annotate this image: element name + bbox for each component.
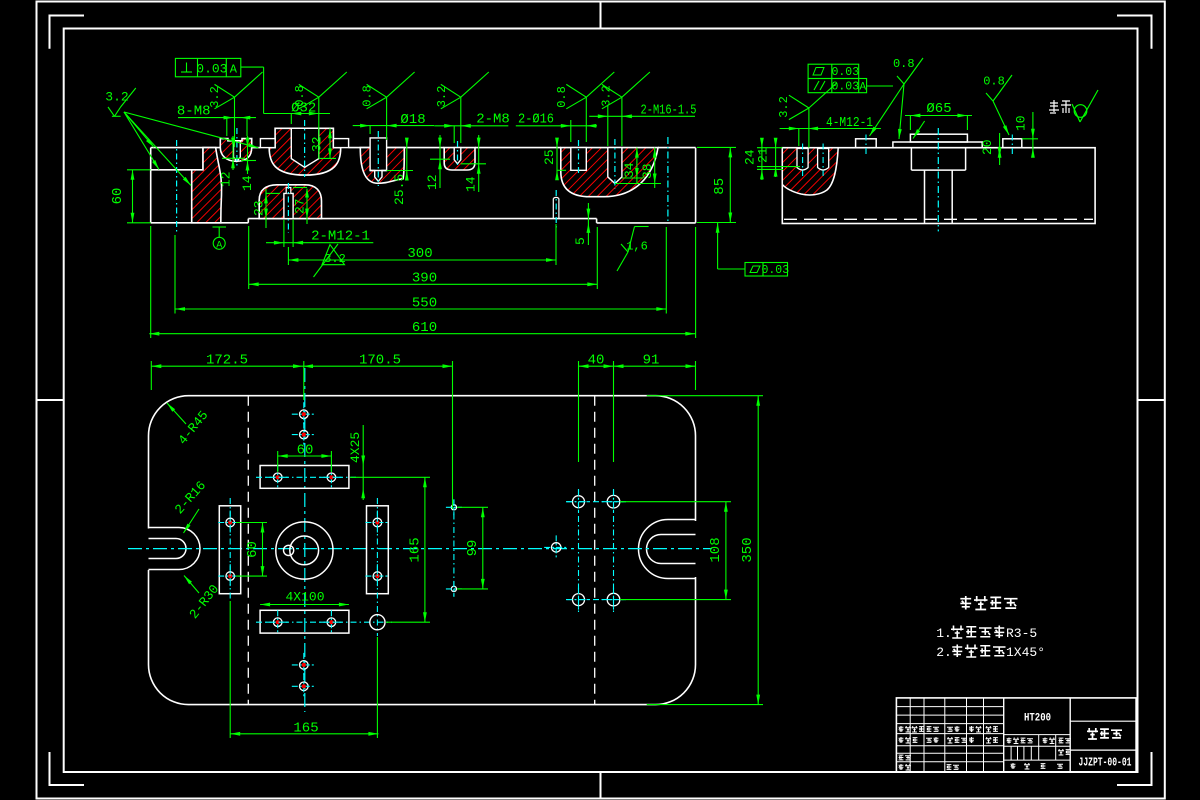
svg-text:2-M8: 2-M8 [476,112,510,128]
front view body outline [151,148,696,223]
small holes top pair [292,402,316,446]
dim 85 right [697,147,736,222]
dim 172.5 [151,353,303,391]
phi18 centerline [377,131,379,186]
side view body outline [782,148,1095,224]
side view left tab centerline [865,135,867,158]
perpendicularity frame 0.03 A [175,58,263,113]
M16 tapped hole [608,148,622,184]
surface mark 0.8 at phi32 [293,72,347,158]
tech req line 2 [936,645,1045,661]
svg-text:0.8: 0.8 [983,75,1005,89]
surface mark 3.2 at 2-M16 [600,72,650,109]
phi32 label and dim [264,101,330,125]
label 4-R45 [167,403,211,448]
dim 25.5 [387,138,413,205]
surface mark 3.2 at 2-M8 [435,72,489,109]
svg-text:14: 14 [464,176,479,192]
svg-text:3.2: 3.2 [105,90,128,105]
plan edge openings for side slots [149,521,696,577]
center tick left edge [37,399,64,401]
keyway holes right slot [365,498,389,636]
surface mark 3.2 side view [777,83,837,148]
8-M8 tapped hole [234,141,241,162]
2-M12-1 label and dim [266,220,373,247]
svg-text:12: 12 [425,174,440,190]
center tick top edge [600,2,602,29]
svg-text:390: 390 [412,271,437,287]
center bore circles [276,522,333,579]
svg-text:60: 60 [297,443,314,459]
keyway holes top slot [256,465,356,489]
plan main vertical centerline [304,368,306,712]
surface mark 3.2 at 8-M8 [208,72,263,147]
svg-text:4X25: 4X25 [348,432,363,463]
dim 14 at 8-M8 [240,136,256,191]
surface mark 0.8 at 2-phi16 [555,72,614,109]
svg-text:HT200: HT200 [1024,713,1051,725]
svg-text:3.2: 3.2 [324,252,346,266]
side view left hatch (4-M12 bosses) [782,148,838,195]
svg-text:25.5: 25.5 [392,174,407,205]
svg-text:2.: 2. [936,645,952,660]
label 2-R16 [172,478,209,533]
phi32 counterbore hole [291,128,319,167]
2-phi16 label and dim [516,97,597,142]
center tick right edge [1138,399,1165,401]
dim 60 left [110,170,151,223]
dim 390 [249,226,598,289]
surface mark 1.6 [617,227,649,272]
svg-text:108: 108 [708,537,724,562]
svg-text:165: 165 [293,720,318,736]
keyway slot left [219,506,240,594]
svg-text:40: 40 [588,353,605,369]
flatness frame 0.03 bottom [716,223,789,277]
M12 hole centerline [287,183,289,233]
svg-text:A: A [859,81,866,93]
plain circle below right keyway [370,615,385,630]
svg-text:A: A [216,241,222,252]
corner mark bottom-right [1117,752,1152,785]
dim 10 [1014,112,1039,158]
dim 300 [288,224,556,265]
datum A symbol [213,227,227,252]
phi32 right ear [333,139,348,148]
dim 40 [579,353,614,463]
phi18 hole with collar [370,138,387,181]
4-M12 centerlines [803,144,824,177]
svg-text:350: 350 [740,537,756,562]
svg-text:300: 300 [407,246,432,262]
dim 12 at 8-M8 [219,136,246,187]
keyway slot right [367,506,389,594]
dim 23 at M12 [252,189,281,228]
side view left tab [856,139,877,148]
dim 99 [457,507,488,589]
left bore centerline [176,140,178,233]
dim 91 [614,353,696,391]
surface mark 0.8 center [870,57,924,139]
dim 165 vertical [350,477,430,622]
dim 350 [647,396,763,705]
svg-text:0.03: 0.03 [196,61,227,76]
left side slot [149,528,201,570]
dim 12 at 2-M8 [425,135,450,190]
phi18 pocket hatch [360,148,404,184]
dim 5 step [573,203,590,245]
right M12 hole in base [553,197,559,218]
svg-text:Ø65: Ø65 [926,101,951,117]
title block texts [899,713,1132,771]
svg-text:12: 12 [219,171,234,187]
dim 27 at M12 [293,188,309,225]
center tick bottom edge [600,772,602,799]
technical requirements title [960,596,1017,610]
right M12 centerline [555,190,557,229]
svg-text:23: 23 [252,200,267,216]
2-phi16 pocket hatch [561,148,658,197]
svg-text:27: 27 [293,198,308,214]
four corner circles right group [566,489,626,612]
section line right dashed [594,396,596,705]
svg-text:5: 5 [573,237,588,245]
parallelism frame stack [808,64,893,93]
svg-text:0.03: 0.03 [761,264,789,277]
svg-text:610: 610 [412,320,437,336]
8-M8 boss tabs and pocket hatch [220,139,251,162]
right slot axis centerline [667,137,669,223]
svg-text:0.8: 0.8 [893,57,915,71]
svg-text:2-Ø16: 2-Ø16 [518,112,554,128]
dim 108 [620,502,731,600]
svg-text:0.03: 0.03 [831,80,859,93]
plan main horizontal centerline [128,548,712,550]
4-M12-1 label and dim [780,115,881,146]
2-M8 pocket hatch [444,148,475,170]
svg-text:38: 38 [640,163,655,179]
keyway slot top [260,466,349,489]
svg-text:10: 10 [1014,115,1029,131]
section line left dashed [247,396,249,705]
keyway holes bottom slot [256,610,392,634]
2-M12 lower boss hatch [259,185,321,219]
svg-text:0.8: 0.8 [361,85,375,107]
surface mark 0.8 at phi18 [361,72,415,109]
phi32 hole centerline [304,120,306,177]
mid hole right of centre [544,535,568,559]
dim 32 depth [310,128,337,158]
keyway holes left slot [218,498,242,601]
side view right tab [1003,139,1022,148]
dim 4X25 [348,425,365,500]
dim 610 [149,226,695,338]
svg-text:1.: 1. [936,626,952,641]
phi65 label and dim [905,101,972,139]
svg-text:550: 550 [412,295,437,311]
svg-text:2-M12-1: 2-M12-1 [311,229,370,245]
label 2-R30 [184,576,222,622]
dim 550 [175,227,666,314]
dim 38 [615,148,661,188]
dim 21 [756,138,801,177]
svg-text:3.2: 3.2 [600,85,614,107]
svg-text:25: 25 [542,149,557,165]
4-M12 hole b [818,149,829,171]
dim 60 left rotated [236,523,267,577]
svg-text:34: 34 [622,162,637,178]
front view left rib section hatch [192,148,222,223]
2-M8 label and dim [434,97,510,143]
svg-text:60: 60 [245,541,261,558]
2-M8 tapped hole [454,148,461,164]
phi18 label and dim [353,97,434,140]
M12 tapped hole left [284,188,293,219]
dim 165 bottom [230,601,378,738]
svg-text:JJZPT-00-01: JJZPT-00-01 [1079,757,1132,770]
svg-text:21: 21 [756,147,771,163]
surface mark 3.2 multi-leader [105,88,258,186]
dim 60 top [278,443,332,473]
dim 25 [542,138,566,181]
side view right tab centerline [1011,135,1013,158]
svg-text:20: 20 [980,139,995,155]
pedestal centerline [937,128,939,231]
M16 centerline [614,139,616,189]
right side slot [639,520,696,579]
svg-text:0.03: 0.03 [831,66,859,79]
corner mark bottom-left [50,752,85,785]
2-M16-1.5 label and dim [589,97,696,146]
center pedestal [893,134,982,223]
phi32 boss and pocket hatch [269,128,341,175]
svg-text:A: A [230,62,238,76]
8-M8 label and dim [177,104,256,137]
keyway slot bottom [260,610,349,633]
svg-text:170.5: 170.5 [359,353,401,369]
svg-text:0.8: 0.8 [555,86,569,108]
phi16 hole [571,148,587,171]
2-M8 centerline [457,141,459,168]
dim 24 [743,138,784,180]
svg-text:32: 32 [310,136,325,152]
svg-text:99: 99 [465,540,481,557]
4-M12 hole a [797,149,808,171]
title block frame [896,698,1136,772]
svg-text:3.2: 3.2 [777,96,791,118]
svg-text:60: 60 [110,188,126,205]
svg-text:1X45°: 1X45° [1006,645,1045,660]
dim 4X100 [260,590,349,607]
corner mark top-right [1117,16,1152,49]
svg-text:172.5: 172.5 [206,353,248,369]
dim 170.5 [303,353,453,510]
dim 34 [622,148,643,183]
tech req line 1 [936,626,1037,642]
svg-text:85: 85 [712,178,728,195]
tiny holes for 99 dim [446,499,462,597]
svg-text:1,6: 1,6 [626,240,648,254]
dim 20 [980,133,1002,165]
dim 14 at 2-M8 [461,135,486,192]
svg-text:R3-5: R3-5 [1006,626,1037,641]
svg-text:91: 91 [643,353,660,369]
small holes bottom pair [292,653,316,698]
qiyu (rest) roughness note [1049,90,1098,122]
svg-text:14: 14 [240,175,255,191]
svg-text:4X100: 4X100 [285,590,324,605]
phi32 left ear [260,139,275,148]
surface mark 0.8 right [983,75,1012,136]
svg-text:3.2: 3.2 [435,86,449,108]
svg-text:165: 165 [408,537,424,562]
8-M8 hole centerline [236,128,238,168]
plan view outline [149,396,696,705]
corner mark top-left [50,16,85,49]
phi16 centerline [578,140,580,176]
surface mark 3.2 under 2-M12-1 [314,244,346,277]
